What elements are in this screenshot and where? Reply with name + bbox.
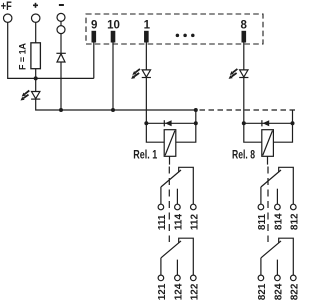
Rel.1 contact 11x [158, 167, 196, 210]
svg-text:114: 114 [173, 214, 184, 231]
junction - line / - bus [59, 108, 63, 112]
pin 10 [107, 19, 120, 42]
svg-text:112: 112 [189, 214, 200, 231]
relay coil Rel.8 [262, 130, 274, 157]
connector dashed outline [86, 14, 263, 44]
Rel.8 wire node to - bus [292, 110, 294, 123]
wire +F to + bus [8, 22, 94, 78]
Rel.8 contact 81x [258, 167, 296, 210]
Rel.1 diode row wire [146, 122, 195, 124]
wire pin 8 to LED [243, 43, 245, 70]
Rel.8 diode row wire [244, 122, 293, 124]
svg-text:821: 821 [257, 283, 268, 300]
power LED H0 [21, 91, 41, 101]
junction Rel.1 / - bus [194, 108, 198, 112]
Rel.1 coil left wire [146, 123, 164, 142]
Rel.1 linkage dashed [168, 167, 170, 243]
Rel.8 contact 82x [258, 238, 296, 281]
wire LED8 to coil node [243, 78, 245, 124]
svg-text:F = 1A: F = 1A [17, 43, 28, 70]
svg-text:+F: +F [1, 1, 12, 13]
Rel.1 contact 12x [158, 238, 196, 281]
diode V1 reverse polarity [56, 53, 65, 62]
wire pin 10 to - bus [112, 43, 114, 111]
junction fuse / + bus [34, 76, 38, 80]
Rel.1 node left junction [144, 121, 148, 125]
svg-text:1: 1 [144, 19, 151, 31]
wire LED1 to coil node [145, 78, 147, 124]
svg-text:124: 124 [173, 283, 184, 300]
- bus wire [36, 100, 196, 111]
Rel.1 coil stub [169, 156, 171, 164]
ellipsis dots [176, 34, 195, 38]
pin 8 [240, 19, 247, 42]
terminal + [32, 3, 40, 23]
svg-text:811: 811 [257, 214, 268, 231]
svg-text:8: 8 [240, 19, 247, 31]
wire fuse to junction [35, 69, 37, 79]
svg-text:824: 824 [273, 283, 284, 300]
fuse F = 1A [17, 43, 40, 70]
Rel.1 node right junction [194, 121, 198, 125]
svg-text:Rel. 8: Rel. 8 [232, 149, 255, 161]
Rel.1 freewheel diode [164, 120, 171, 126]
Rel.8 coil stub [267, 156, 269, 164]
LED channel 1 [131, 69, 151, 79]
svg-text:10: 10 [107, 19, 120, 31]
svg-text:822: 822 [289, 283, 300, 300]
- bus dashed continuation [200, 109, 297, 111]
Rel.1 wire node to - bus [195, 110, 197, 123]
Rel.1 coil right wire [176, 123, 196, 142]
terminal +F [1, 1, 12, 23]
svg-text:812: 812 [289, 213, 300, 230]
wire diode to - bus [60, 62, 62, 110]
relay coil Rel.1 [164, 130, 176, 157]
svg-text:814: 814 [273, 213, 284, 230]
Rel.8 coil left wire [244, 123, 262, 142]
pin 9 [91, 19, 97, 42]
Rel.8 freewheel diode [262, 120, 269, 126]
Rel.8 linkage dashed [267, 167, 269, 243]
Rel.8 node right junction [291, 121, 295, 125]
pin 1 [144, 19, 151, 42]
svg-text:9: 9 [91, 19, 97, 31]
wire - to diode [60, 34, 62, 54]
svg-text:111: 111 [157, 214, 168, 230]
LED channel 8 [229, 69, 249, 79]
terminal - [57, 5, 65, 34]
Rel.8 coil right wire [273, 123, 292, 142]
wire pin 1 to LED [145, 43, 147, 70]
svg-text:122: 122 [189, 283, 200, 300]
wire + to fuse [35, 22, 37, 42]
svg-text:Rel. 1: Rel. 1 [133, 149, 157, 161]
Rel.8 node left junction [242, 121, 246, 125]
svg-text:121: 121 [157, 283, 168, 300]
junction pin10 / - bus [111, 108, 115, 112]
wire junction to LED [35, 78, 37, 91]
wire pin 9 to + bus [93, 43, 95, 79]
